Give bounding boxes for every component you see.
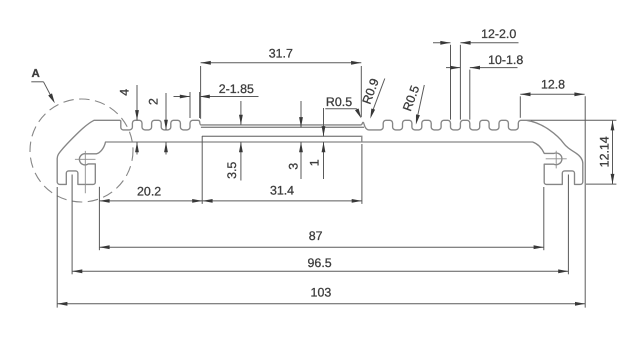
svg-text:12-2.0: 12-2.0 [481, 27, 516, 41]
svg-text:10-1.8: 10-1.8 [488, 53, 523, 67]
svg-text:4: 4 [118, 89, 132, 96]
svg-text:31.7: 31.7 [269, 46, 293, 60]
svg-text:R0.5: R0.5 [326, 95, 352, 109]
svg-text:96.5: 96.5 [308, 256, 332, 270]
svg-text:2: 2 [147, 98, 161, 105]
svg-text:3: 3 [286, 163, 300, 170]
svg-text:2-1.85: 2-1.85 [219, 82, 254, 96]
svg-text:87: 87 [309, 229, 323, 243]
svg-text:A: A [31, 68, 39, 80]
svg-text:12.14: 12.14 [597, 136, 611, 167]
svg-text:12.8: 12.8 [541, 78, 565, 92]
svg-text:1: 1 [308, 159, 322, 166]
svg-text:103: 103 [311, 285, 332, 299]
svg-text:20.2: 20.2 [137, 185, 161, 199]
svg-text:31.4: 31.4 [270, 184, 294, 198]
svg-text:3.5: 3.5 [225, 162, 239, 179]
svg-text:R0.9: R0.9 [360, 77, 382, 106]
